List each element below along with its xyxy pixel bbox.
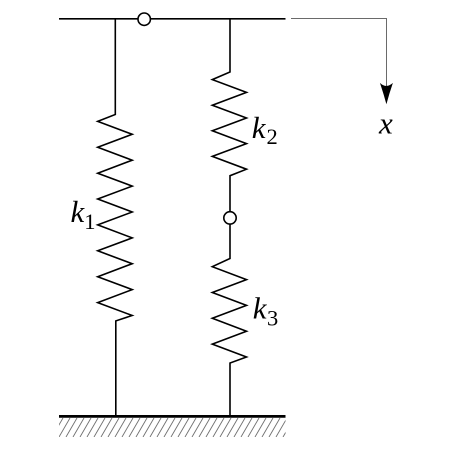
svg-text:x: x: [378, 106, 393, 141]
svg-text:2: 2: [267, 124, 278, 149]
arrowhead for x direction: [380, 83, 393, 104]
ground line: [59, 415, 286, 418]
ground hatching: [52, 418, 294, 437]
svg-text:k: k: [253, 290, 268, 325]
svg-text:k: k: [71, 194, 86, 229]
wire: x-coordinate reference line: [291, 19, 387, 87]
wire: right upper branch with spring k2: [212, 18, 246, 212]
svg-text:1: 1: [84, 209, 95, 234]
node circle: pivot on top bar: [138, 13, 150, 25]
wire: left branch with spring k1: [98, 18, 133, 418]
svg-text:k: k: [252, 110, 267, 145]
svg-text:3: 3: [267, 306, 278, 331]
wire: right lower branch with spring k3: [212, 224, 246, 418]
top rigid bar: [59, 18, 286, 20]
node circle: junction between k2 and k3: [224, 212, 236, 224]
